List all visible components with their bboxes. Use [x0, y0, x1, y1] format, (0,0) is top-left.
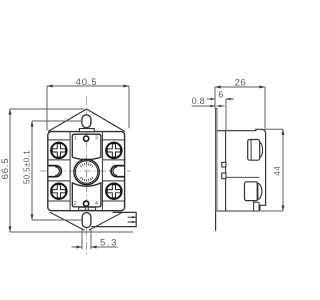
- svg-text:50.5±0.1: 50.5±0.1: [23, 150, 32, 184]
- svg-text:26: 26: [235, 78, 247, 89]
- bottom plate: [72, 183, 101, 207]
- screw BL: [51, 183, 67, 199]
- terminal tab front view: [91, 212, 136, 226]
- svg-text:0.8: 0.8: [192, 96, 205, 106]
- svg-text:1: 1: [74, 136, 77, 142]
- wire wing line A: [48, 139, 125, 141]
- wire column divider right: [101, 132, 103, 211]
- screw TR: [106, 143, 122, 159]
- plate stem below: [215, 211, 217, 231]
- pin hole bottom: [84, 201, 89, 206]
- side body left face: [225, 131, 227, 211]
- side bottom edge: [217, 210, 260, 212]
- side top cap: [217, 129, 266, 133]
- svg-text:2: 2: [74, 201, 77, 207]
- dial outer circle: [74, 159, 99, 184]
- svg-text:66.5: 66.5: [0, 158, 11, 180]
- terminal top side view: [248, 140, 260, 161]
- stem flange top: [79, 129, 94, 132]
- svg-text:5.3: 5.3: [100, 237, 118, 248]
- dial inner circle: [75, 161, 97, 183]
- clip tab right: [111, 166, 124, 177]
- side internal line: [226, 176, 260, 178]
- bottom slope right: [89, 212, 123, 230]
- pin hole top: [84, 136, 89, 141]
- wire wing line D: [48, 200, 125, 202]
- wire roof triangle: [48, 110, 125, 132]
- bracket outline front view: [48, 132, 125, 211]
- bottom slope left: [50, 212, 85, 230]
- foot left: [79, 207, 86, 210]
- wire wing line C: [48, 180, 125, 182]
- terminal bottom side view: [245, 182, 258, 201]
- dim 50.5+-0.1: [32, 121, 82, 220]
- centerline horizontal front view: [40, 170, 131, 172]
- svg-text:4: 4: [95, 201, 98, 207]
- dial ticks: [80, 163, 93, 182]
- clip tab left: [48, 166, 61, 177]
- dim 5.3: [72, 230, 118, 250]
- dim 66.5: [10, 109, 133, 232]
- screw TL: [51, 143, 67, 159]
- dim 44: [261, 129, 283, 211]
- plate side: [214, 108, 216, 211]
- foot right: [88, 207, 95, 210]
- dim 6: [207, 99, 234, 131]
- top plate U1: [72, 134, 101, 159]
- dim 40.5: [47, 86, 129, 130]
- svg-text:44: 44: [272, 166, 282, 176]
- dim 0.8: [192, 105, 225, 107]
- terminal lower block: [254, 201, 260, 211]
- dim 26: [215, 87, 265, 130]
- centerline vertical front view: [86, 97, 88, 255]
- screw BR: [106, 183, 122, 199]
- clip bump upper: [222, 162, 226, 167]
- wire wing line B: [48, 159, 125, 161]
- stem oval top: [82, 115, 91, 128]
- svg-text:3: 3: [95, 136, 98, 142]
- stem oval bottom: [82, 213, 91, 228]
- svg-text:40.5: 40.5: [76, 77, 98, 88]
- svg-text:6: 6: [218, 90, 223, 100]
- wire column divider left: [69, 132, 71, 211]
- clip bump lower: [222, 173, 226, 179]
- side right face: [260, 133, 266, 211]
